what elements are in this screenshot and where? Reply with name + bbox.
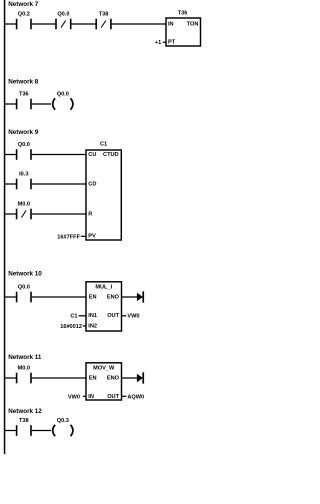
svg-text:M0.0: M0.0 — [18, 201, 30, 207]
contact Q0.0 — [16, 284, 32, 302]
svg-text:AQW0: AQW0 — [127, 394, 144, 400]
svg-text:TON: TON — [187, 21, 199, 27]
svg-text:Network 9: Network 9 — [8, 129, 39, 136]
OUT operand AQW0 — [121, 394, 144, 400]
contact Q0.2 — [16, 11, 32, 29]
network 8 header — [8, 78, 39, 85]
OUT operand VW0 — [121, 314, 140, 320]
svg-text:CD: CD — [88, 181, 96, 187]
wire Q0.2 to Q0.0 — [32, 23, 56, 25]
coil Q0.0 — [53, 91, 73, 109]
svg-text:Q0.0: Q0.0 — [18, 284, 30, 290]
svg-text:PV: PV — [88, 234, 96, 240]
contact M0.0 — [16, 365, 32, 383]
open branch arrow — [121, 291, 144, 302]
svg-text:OUT: OUT — [107, 313, 119, 319]
contact I0.3 — [16, 171, 32, 189]
contact M0.0 (NC) — [16, 201, 32, 219]
wire Q0.0 to EN pin — [32, 296, 87, 298]
svg-text:Q0.3: Q0.3 — [57, 418, 69, 424]
svg-text:MUL_I: MUL_I — [95, 285, 112, 291]
svg-text:C1: C1 — [70, 314, 77, 320]
move box MOV_W — [86, 363, 122, 400]
wire M0.0 to EN pin — [32, 377, 87, 379]
svg-text:IN2: IN2 — [88, 323, 97, 329]
svg-text:C1: C1 — [100, 141, 107, 147]
svg-text:T38: T38 — [99, 11, 109, 17]
svg-text:IN1: IN1 — [88, 313, 97, 319]
svg-text:Network 11: Network 11 — [8, 354, 42, 361]
svg-text:EN: EN — [89, 375, 97, 381]
open branch arrow — [121, 372, 144, 383]
svg-text:Q0.0: Q0.0 — [18, 142, 30, 148]
wire rail to Q0.0 contact — [5, 296, 17, 298]
svg-text:Network 12: Network 12 — [8, 408, 42, 415]
contact T38 — [16, 418, 32, 436]
svg-text:+1: +1 — [155, 40, 161, 46]
svg-text:M0.0: M0.0 — [18, 365, 30, 371]
contact T38 (NC) — [95, 11, 111, 29]
svg-text:I0.3: I0.3 — [19, 171, 28, 177]
svg-text:OUT: OUT — [107, 394, 119, 400]
wire rail to T38 contact — [5, 430, 17, 432]
svg-text:VW0: VW0 — [127, 314, 139, 320]
network 12 header — [8, 408, 42, 415]
svg-text:PT: PT — [168, 40, 176, 46]
wire Q0.0 to CU pin — [32, 154, 87, 156]
wire T38 to coil Q0.3 — [32, 430, 51, 432]
multiply box MUL_I — [86, 282, 122, 331]
left power rail — [4, 0, 6, 454]
network 10 header — [8, 270, 42, 277]
svg-text:EN: EN — [89, 294, 97, 300]
network 7 header — [8, 1, 39, 8]
svg-text:CTUD: CTUD — [103, 152, 119, 158]
coil Q0.3 — [53, 418, 73, 436]
svg-text:Q0.0: Q0.0 — [57, 91, 69, 97]
PT preset value +1 — [155, 40, 167, 46]
IN2 operand 16#0012 — [60, 324, 86, 330]
contact Q0.0 — [16, 142, 32, 160]
counter box C1 CTUD — [86, 141, 121, 240]
svg-text:Q0.2: Q0.2 — [18, 11, 30, 17]
timer box T36 TON — [166, 11, 201, 46]
contact Q0.0 (NC) — [55, 11, 71, 29]
wire rail to T36 contact — [5, 103, 17, 105]
IN operand VW0 — [68, 394, 87, 400]
wire Q0.0 to T38 — [72, 23, 96, 25]
PV preset value 16#7FFF — [57, 235, 86, 241]
svg-text:CU: CU — [88, 152, 96, 158]
wire M0.0 to R pin — [32, 213, 87, 215]
wire rail to M0.0 (R row) — [5, 213, 17, 215]
contact T36 — [16, 91, 32, 109]
svg-text:T36: T36 — [19, 91, 29, 97]
svg-text:VW0: VW0 — [68, 394, 80, 400]
wire rail to Q0.0 (CU row) — [5, 154, 17, 156]
wire rail to M0.0 contact — [5, 377, 17, 379]
svg-text:T38: T38 — [19, 418, 29, 424]
svg-text:Network 7: Network 7 — [8, 1, 39, 8]
network 9 header — [8, 129, 39, 136]
wire I0.3 to CD pin — [32, 183, 87, 185]
svg-text:MOV_W: MOV_W — [93, 366, 115, 372]
wire T38 to T36 IN pin — [112, 23, 167, 25]
wire T36 to coil Q0.0 — [32, 103, 51, 105]
svg-text:Network 10: Network 10 — [8, 270, 42, 277]
svg-text:16#7FFF: 16#7FFF — [57, 235, 80, 241]
svg-text:IN: IN — [88, 394, 94, 400]
wire rail to I0.3 (CD row) — [5, 183, 17, 185]
svg-text:R: R — [88, 211, 92, 217]
wire rail to Q0.2 — [5, 23, 17, 25]
IN1 operand C1 — [70, 314, 86, 320]
network 11 header — [8, 354, 42, 361]
svg-text:ENO: ENO — [107, 294, 120, 300]
svg-text:T36: T36 — [178, 11, 188, 17]
svg-text:ENO: ENO — [107, 375, 120, 381]
svg-text:16#0012: 16#0012 — [60, 324, 82, 330]
svg-text:IN: IN — [168, 21, 174, 27]
svg-text:Network 8: Network 8 — [8, 78, 39, 85]
svg-text:Q0.0: Q0.0 — [57, 11, 69, 17]
